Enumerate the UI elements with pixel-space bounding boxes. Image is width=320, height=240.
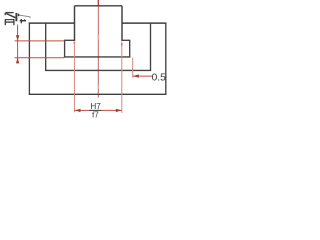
groove right wall bbox=[150, 23, 152, 71]
top-left rotated 'f' strokes (denominator f7) bbox=[20, 20, 26, 22]
bottom dimension fraction bar (black) bbox=[89, 109, 102, 111]
left dimension upper arrowhead (points down to y=41) bbox=[16, 35, 20, 40]
bottom dimension left arrowhead (tip at x=74.6) bbox=[75, 109, 81, 112]
tenon flange right edge bbox=[129, 40, 131, 57]
bottom dimension extension line right darker tick bbox=[121, 43, 123, 46]
top-left rotated fraction bar (vertical) bbox=[15, 13, 17, 21]
right 0.5 dimension arrowhead (tip at x=132.9) bbox=[133, 74, 139, 77]
slot lip bottom left jog bbox=[64, 39, 75, 41]
housing left outer edge bbox=[28, 23, 30, 95]
bottom dimension line left segment bbox=[75, 109, 89, 111]
left dimension extension line at flange top level bbox=[15, 40, 65, 42]
top-left rotated '7' strokes (numerator H7) bbox=[4, 13, 6, 16]
tenon stem right edge bbox=[121, 6, 123, 41]
centerline of tenon (red dash-dot) bbox=[97, 0, 99, 98]
bottom dimension extension line left (x=74.4) bbox=[73, 42, 75, 113]
right 0.5 dimension line bbox=[133, 75, 152, 77]
bottom dimension extension line right (x=121.8) bbox=[121, 42, 123, 113]
left dimension line (vertical, outside arrows) bbox=[17, 25, 19, 63]
top-left rotated '7' strokes (denominator f7) long diagonal bbox=[17, 15, 31, 17]
top-left rotated fit label H7/f7: rotated 'H' strokes bbox=[5, 13, 31, 26]
housing top surface left bbox=[29, 22, 75, 24]
centerline light gap patch 2 bbox=[97, 86, 99, 89]
housing top surface right bbox=[122, 22, 166, 24]
tenon flange left edge bbox=[64, 40, 66, 57]
svg-text:0.5: 0.5 bbox=[152, 73, 166, 84]
tenon stem top edge bbox=[75, 5, 123, 7]
centerline light gap patch bbox=[97, 35, 99, 40]
housing right outer edge bbox=[165, 23, 167, 95]
svg-text:f7: f7 bbox=[92, 111, 99, 120]
bottom dimension right arrowhead (tip at x=121.7) bbox=[116, 109, 122, 112]
slot lip bottom right jog bbox=[121, 39, 130, 41]
groove left wall bbox=[45, 23, 47, 71]
left dimension lower arrowhead (points up to y=57.8) bbox=[16, 58, 20, 64]
left dimension extension line at flange bottom level bbox=[15, 57, 65, 59]
groove bottom bbox=[45, 69, 151, 71]
housing bottom edge bbox=[29, 93, 167, 95]
tenon stem left edge bbox=[74, 6, 76, 41]
right 0.5 dimension extension line (vertical, x=132.7) bbox=[132, 58, 134, 78]
bottom dimension line right segment bbox=[102, 109, 122, 111]
centerline darker top segment bbox=[97, 0, 99, 6]
bottom dimension extension line left darker tick bbox=[73, 42, 75, 44]
tenon flange bottom edge bbox=[64, 56, 130, 58]
